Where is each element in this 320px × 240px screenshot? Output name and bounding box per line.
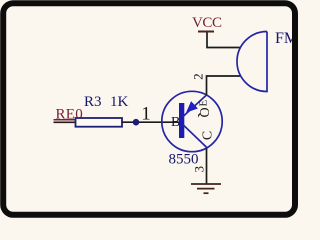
svg-text:1K: 1K: [110, 94, 129, 110]
transistor Q? circle: [162, 91, 222, 151]
wire VCC to buzzer: [207, 33, 241, 48]
svg-text:C: C: [201, 131, 216, 140]
svg-text:3: 3: [192, 166, 207, 173]
svg-text:VCC: VCC: [192, 15, 222, 31]
svg-text:R3: R3: [84, 94, 102, 110]
wire RE0 to resistor: [54, 121, 78, 123]
collector wire down to ground: [206, 148, 208, 184]
emitter arrow (PNP): [186, 101, 198, 113]
collector line: [183, 125, 207, 148]
net label RE0: [54, 107, 86, 123]
ground symbol: [191, 184, 221, 193]
transistor base bar: [179, 103, 184, 138]
buzzer LS (D-shape): [237, 32, 267, 92]
power symbol VCC: [192, 15, 222, 32]
svg-text:2: 2: [191, 73, 206, 80]
wire resistor to transistor base: [122, 121, 180, 123]
emitter wire up and right to buzzer: [207, 76, 242, 95]
junction dot: [133, 119, 140, 126]
emitter line: [183, 95, 207, 117]
svg-text:B: B: [171, 115, 180, 130]
svg-text:Q: Q: [196, 107, 211, 117]
svg-text:E: E: [198, 100, 210, 107]
svg-text:1: 1: [141, 104, 151, 125]
resistor R3: [76, 118, 123, 127]
svg-text:8550: 8550: [169, 152, 199, 168]
